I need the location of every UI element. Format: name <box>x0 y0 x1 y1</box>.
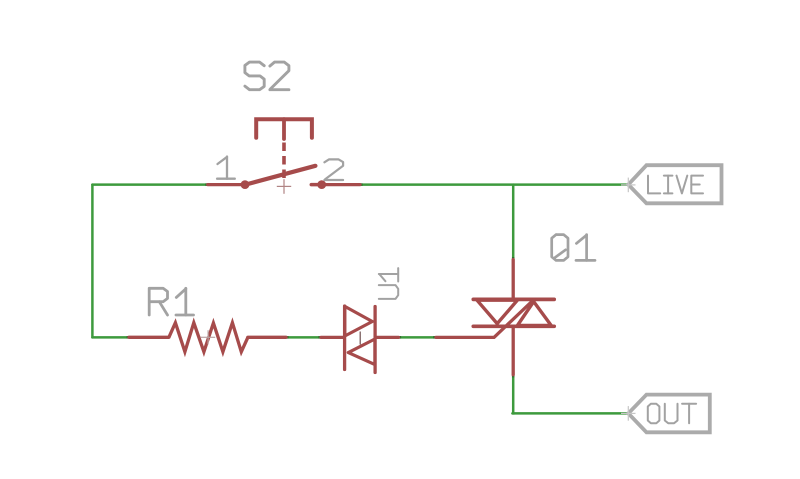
switch pin 1 contact dot <box>241 180 250 189</box>
switch pin 2 contact dot <box>317 180 326 189</box>
pin 2 stub <box>311 183 318 187</box>
label R1 <box>149 288 193 315</box>
left triangle (down) <box>477 300 517 323</box>
top lead <box>512 260 515 300</box>
pin 1 lead <box>208 183 243 186</box>
wire Q1 down to OUT corner <box>511 375 514 414</box>
junction Q1 top <box>512 257 515 260</box>
flag LIVE <box>628 165 721 203</box>
MT1 bottom bar <box>473 324 554 328</box>
plunger bracket <box>256 119 312 138</box>
wire U1 to Q1 gate <box>399 336 437 339</box>
diac origin tick <box>359 332 361 345</box>
junction S2 pin2 <box>360 183 363 186</box>
wire corner to OUT <box>513 412 629 415</box>
OUT origin cross <box>621 406 636 421</box>
plunger stem <box>282 119 286 139</box>
junction S2 pin1 <box>205 183 208 186</box>
label U1 (rotated) <box>379 268 398 299</box>
pin junction dots (dark green) <box>127 185 514 378</box>
diac U1 <box>321 306 399 373</box>
LIVE origin cross <box>621 178 636 193</box>
top triangle <box>345 306 373 336</box>
label pin number 2 <box>324 159 343 180</box>
junction R1 left <box>127 336 130 339</box>
switch origin cross <box>277 179 291 194</box>
right lead <box>248 336 286 339</box>
right electrode bar <box>373 307 376 373</box>
wire junction down to Q1 <box>512 185 515 260</box>
label OUT text <box>648 404 696 423</box>
gate lead <box>436 299 534 337</box>
label pin number 1 <box>217 157 235 179</box>
right lead <box>376 336 399 339</box>
label LIVE text <box>648 176 703 194</box>
junction U1 right <box>398 336 401 339</box>
wire bottom left <box>92 336 129 339</box>
dashed actuator line <box>282 143 286 179</box>
pin 2 lead <box>325 183 360 186</box>
label Q1 <box>552 235 595 261</box>
junction R1 right <box>286 336 289 339</box>
right triangle (up) <box>517 302 551 326</box>
left lead <box>321 336 344 339</box>
left electrode bar <box>343 306 346 370</box>
wire left vertical <box>91 185 94 338</box>
label S2 <box>245 62 289 90</box>
switch S2 <box>208 119 360 184</box>
MT2 top bar <box>473 298 554 302</box>
junction Q1 bottom <box>512 375 515 378</box>
wire switch to LIVE <box>360 183 628 186</box>
junction Q1 gate <box>433 336 436 339</box>
bottom triangle <box>348 339 375 365</box>
left lead <box>129 336 169 339</box>
wire R1 to U1 <box>286 336 321 339</box>
wire left top horizontal <box>92 183 207 186</box>
resistor R1 <box>129 323 286 352</box>
triac Q1 <box>436 260 554 375</box>
lever <box>246 166 316 185</box>
zigzag body <box>169 323 248 352</box>
flag OUT <box>628 395 710 433</box>
junction U1 left <box>318 336 321 339</box>
bottom lead <box>512 326 515 374</box>
resistor origin cross <box>200 330 215 344</box>
